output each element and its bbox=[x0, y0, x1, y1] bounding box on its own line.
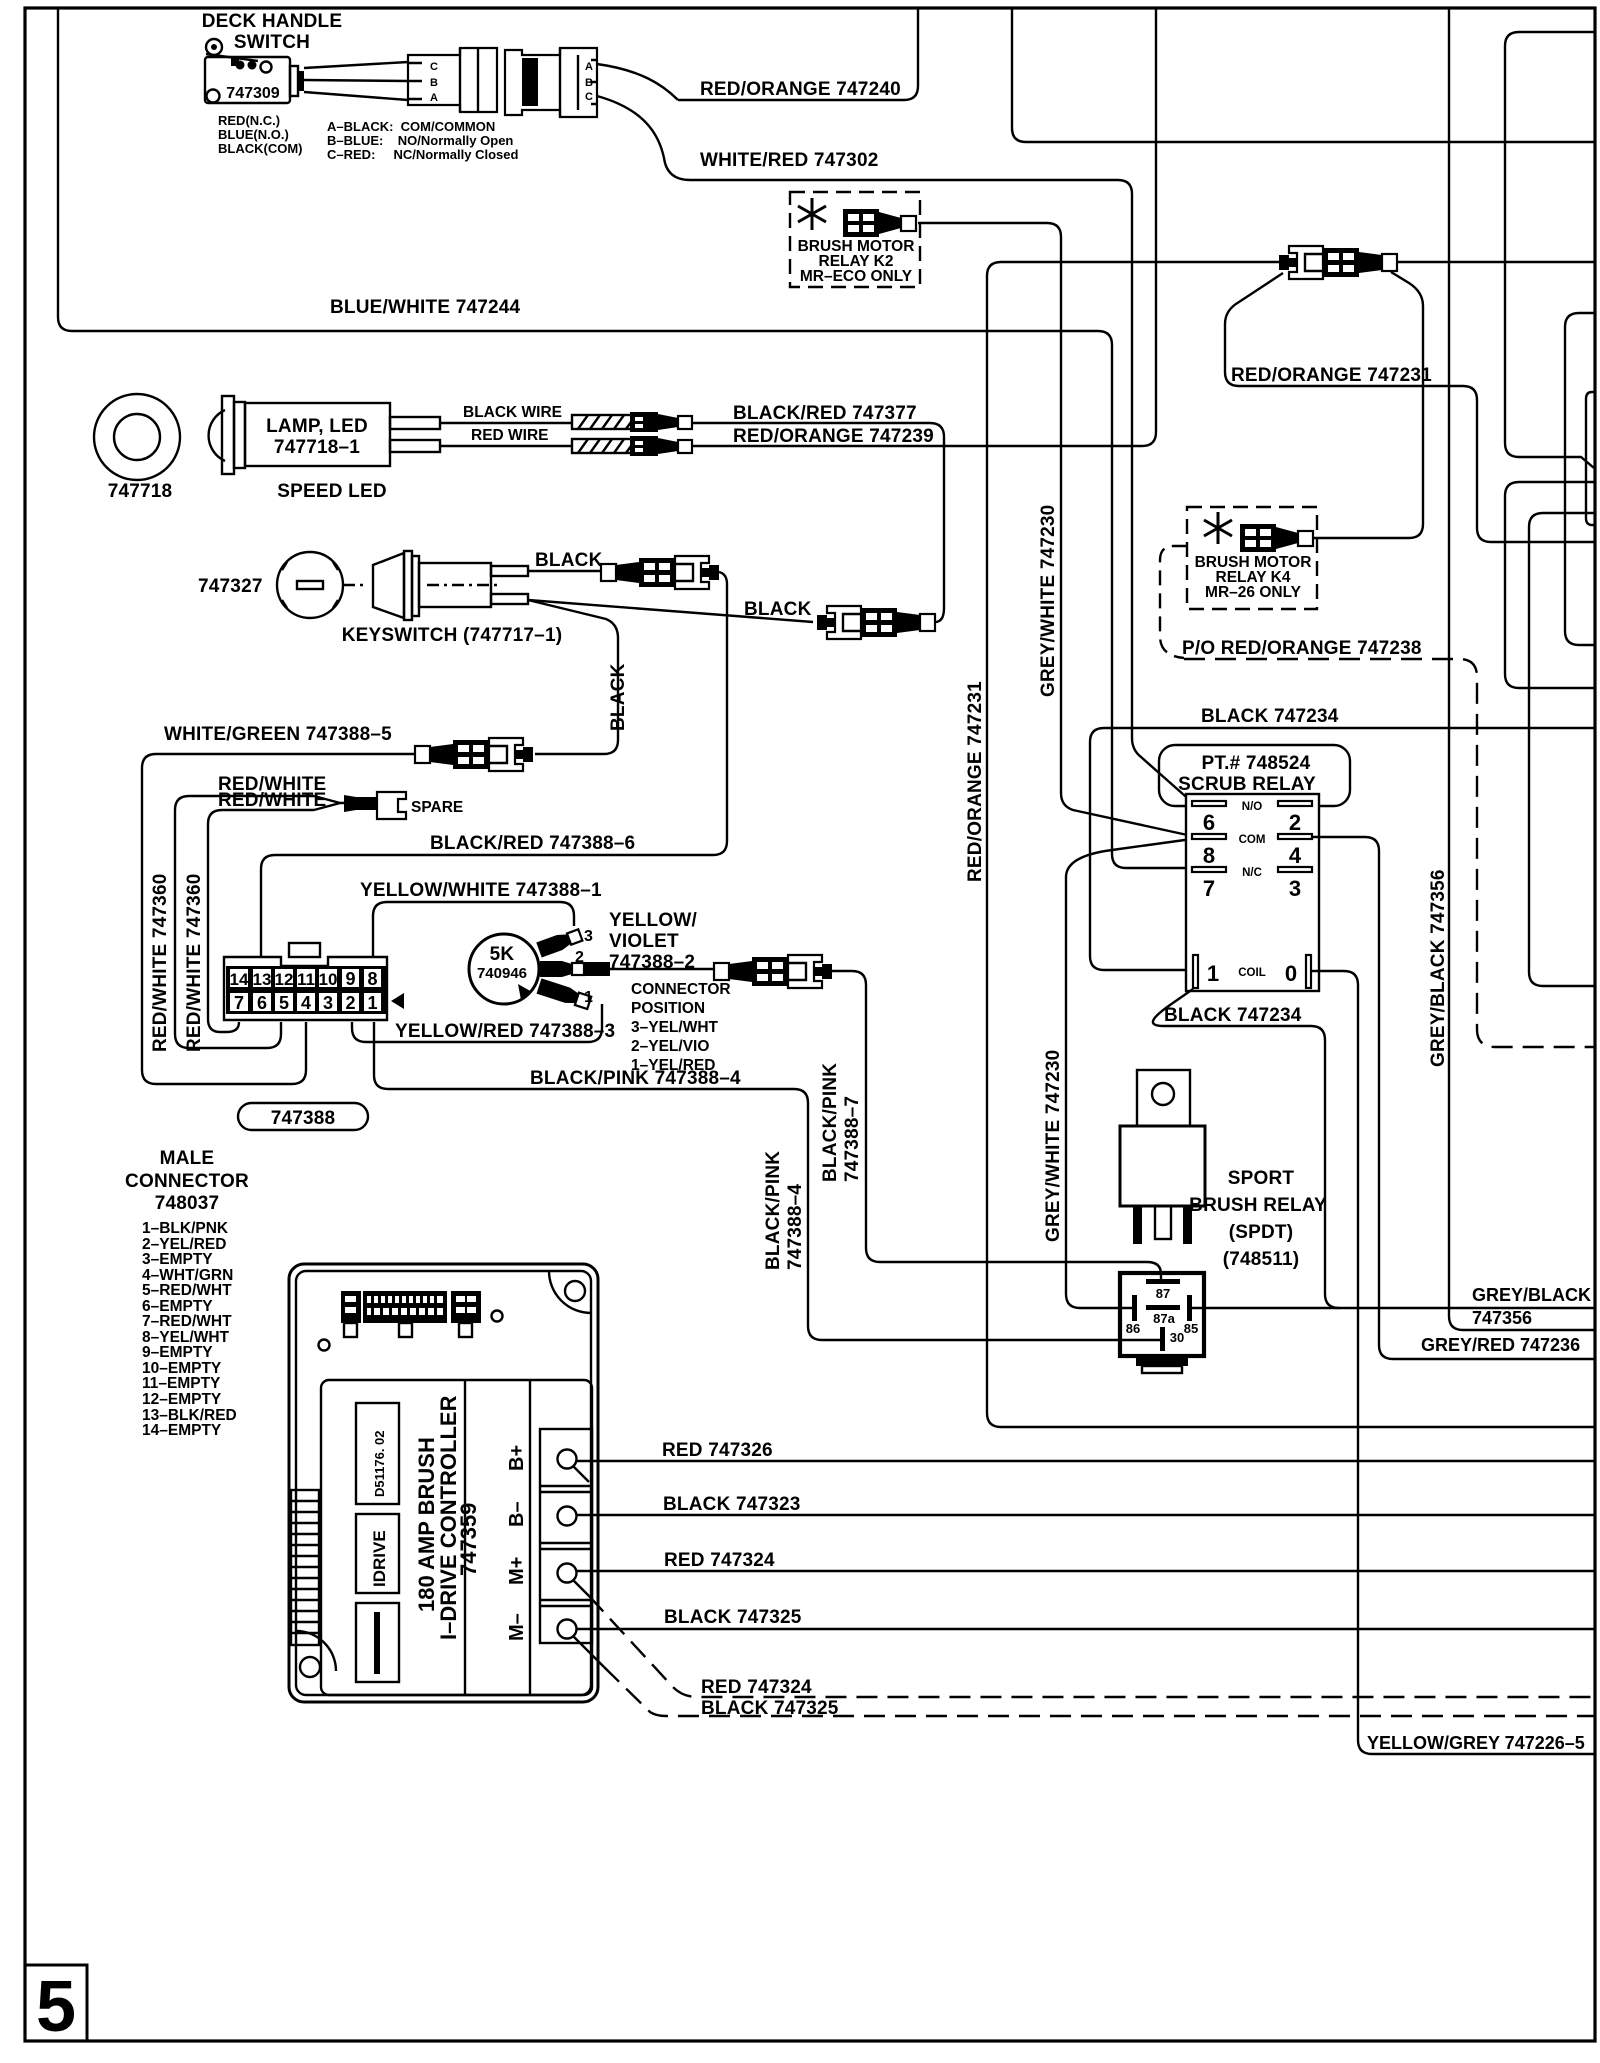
controller terminal strip bbox=[540, 1429, 592, 1643]
svg-text:VIOLET: VIOLET bbox=[609, 931, 679, 952]
svg-text:SPEED LED: SPEED LED bbox=[277, 481, 387, 502]
svg-text:7–RED/WHT: 7–RED/WHT bbox=[142, 1313, 232, 1330]
connector 747388 (14 pin) bbox=[224, 943, 387, 1020]
svg-text:BLACK/PINK: BLACK/PINK bbox=[763, 1151, 784, 1270]
svg-text:747309: 747309 bbox=[226, 85, 279, 102]
pot terminal 1 bbox=[537, 978, 592, 1010]
svg-text:740946: 740946 bbox=[477, 965, 527, 982]
svg-text:2: 2 bbox=[345, 993, 355, 1013]
svg-text:6: 6 bbox=[1203, 810, 1215, 835]
svg-text:4: 4 bbox=[301, 993, 311, 1013]
connector pair lower black bbox=[817, 606, 935, 639]
wires switch to connector bbox=[304, 62, 408, 68]
svg-text:9: 9 bbox=[345, 969, 355, 989]
keyswitch body 747717-1 bbox=[343, 551, 528, 620]
splice on black wire bbox=[572, 412, 692, 432]
svg-text:YELLOW/WHITE 747388–1: YELLOW/WHITE 747388–1 bbox=[360, 880, 602, 901]
svg-text:C: C bbox=[430, 61, 438, 73]
svg-text:6: 6 bbox=[257, 993, 267, 1013]
pot terminal 2 bbox=[540, 961, 610, 977]
svg-text:3–YEL/WHT: 3–YEL/WHT bbox=[631, 1019, 719, 1036]
svg-text:30: 30 bbox=[1170, 1330, 1184, 1345]
svg-text:A–BLACK: COM/COMMON: A–BLACK: COM/COMMON bbox=[327, 119, 495, 134]
dashed wire BLACK 747325 bbox=[604, 1667, 1594, 1716]
wire RED/WHITE to pin 5 bbox=[175, 796, 314, 1048]
splice on red wire bbox=[572, 436, 692, 456]
svg-text:1: 1 bbox=[367, 993, 377, 1013]
right border stub wire C5 bbox=[1529, 513, 1594, 986]
wire BLACK/RED 747388-6 from pin 13 bbox=[261, 855, 713, 957]
svg-text:COM: COM bbox=[1239, 834, 1266, 846]
wire BLACK 747234 lower from pin 1 bbox=[1153, 989, 1339, 1308]
svg-text:2–YEL/VIO: 2–YEL/VIO bbox=[631, 1038, 709, 1055]
wire GREY/WHITE 747230 from scrub relay pin 8 to sport relay 86 bbox=[1066, 839, 1192, 1308]
svg-text:BLACK 747234: BLACK 747234 bbox=[1201, 706, 1339, 727]
connector pair on white/green wire bbox=[415, 738, 533, 771]
wire BLACK 747323 bbox=[576, 1514, 1594, 1516]
terminal M+ bbox=[558, 1564, 577, 1583]
svg-text:3: 3 bbox=[584, 928, 593, 945]
svg-text:SWITCH: SWITCH bbox=[234, 32, 310, 53]
svg-text:RED 747326: RED 747326 bbox=[662, 1440, 773, 1461]
svg-text:RED/ORANGE 747231: RED/ORANGE 747231 bbox=[965, 681, 986, 882]
terminal B+ bbox=[558, 1450, 577, 1469]
svg-text:GREY/WHITE 747230: GREY/WHITE 747230 bbox=[1043, 1050, 1064, 1242]
wire horizontal top row 142 bbox=[1012, 8, 1594, 142]
svg-text:GREY/RED 747236: GREY/RED 747236 bbox=[1421, 1335, 1580, 1355]
svg-text:8: 8 bbox=[367, 969, 377, 989]
sport brush relay physical 748511 bbox=[1120, 1070, 1205, 1244]
wire BLACK keyswitch lower to connector bbox=[528, 600, 813, 622]
terminal B- bbox=[558, 1507, 577, 1526]
pin 86 bbox=[1132, 1295, 1137, 1321]
svg-text:13: 13 bbox=[253, 970, 272, 989]
svg-text:WHITE/RED 747302: WHITE/RED 747302 bbox=[700, 150, 879, 171]
wire BLUE/WHITE 747244 bbox=[58, 8, 1192, 868]
wire red LED lead bbox=[440, 445, 572, 447]
svg-text:MR–ECO ONLY: MR–ECO ONLY bbox=[800, 268, 913, 285]
svg-text:86: 86 bbox=[1126, 1321, 1140, 1336]
svg-text:D51176. 02: D51176. 02 bbox=[372, 1430, 387, 1497]
svg-text:747718–1: 747718–1 bbox=[274, 437, 360, 458]
brush motor relay K4 box bbox=[1187, 507, 1317, 609]
svg-text:BRUSH RELAY: BRUSH RELAY bbox=[1189, 1195, 1327, 1216]
svg-text:A: A bbox=[430, 92, 438, 104]
svg-text:3: 3 bbox=[323, 993, 333, 1013]
scrub relay pin numbers bbox=[1203, 810, 1302, 986]
svg-text:RED/ORANGE 747240: RED/ORANGE 747240 bbox=[700, 79, 901, 100]
microswitch 747309 bbox=[205, 39, 304, 103]
wire BLACK/RED 747377 bbox=[692, 423, 944, 622]
scrub relay label box PT.# 748524 bbox=[1159, 745, 1350, 806]
connector pair on keyswitch black wire bbox=[601, 556, 719, 589]
svg-text:RED/ORANGE 747231: RED/ORANGE 747231 bbox=[1231, 365, 1432, 386]
wire WHITE/GREEN 747388-5 bbox=[142, 754, 415, 1084]
potentiometer 5K 740946 bbox=[469, 934, 539, 1004]
D51176.02 label box bbox=[356, 1403, 399, 1504]
wire 747388-7 to sport relay 87 bbox=[832, 971, 1161, 1280]
svg-text:IDRIVE: IDRIVE bbox=[370, 1530, 389, 1587]
i-drive controller 747359 box bbox=[289, 1264, 598, 1702]
svg-text:RED/WHITE 747360: RED/WHITE 747360 bbox=[150, 874, 171, 1053]
dashed pigtail K4 to 747238 bbox=[1160, 546, 1187, 658]
svg-text:N/C: N/C bbox=[1242, 867, 1262, 879]
svg-text:WHITE/GREEN 747388–5: WHITE/GREEN 747388–5 bbox=[164, 724, 392, 745]
svg-text:BLACK/RED 747377: BLACK/RED 747377 bbox=[733, 403, 917, 424]
svg-text:(SPDT): (SPDT) bbox=[1229, 1222, 1294, 1243]
svg-text:747356: 747356 bbox=[1472, 1308, 1532, 1328]
svg-text:85: 85 bbox=[1184, 1321, 1198, 1336]
svg-text:(748511): (748511) bbox=[1223, 1249, 1300, 1270]
oval label 747388 bbox=[238, 1103, 368, 1130]
scrub relay pin bars bbox=[1192, 801, 1312, 988]
svg-text:YELLOW/GREY 747226–5: YELLOW/GREY 747226–5 bbox=[1367, 1733, 1585, 1753]
right border stub wire C1 bbox=[1505, 32, 1594, 468]
svg-text:GREY/WHITE 747230: GREY/WHITE 747230 bbox=[1038, 505, 1059, 697]
svg-text:747359: 747359 bbox=[456, 1503, 481, 1576]
wire RED 747326 bbox=[576, 1460, 1594, 1462]
wire YELLOW/WHITE 747388-1 from pin 8 bbox=[373, 902, 574, 957]
right border stub wire C4 bbox=[1505, 482, 1594, 688]
svg-text:14–EMPTY: 14–EMPTY bbox=[142, 1422, 222, 1439]
svg-text:87: 87 bbox=[1156, 1286, 1170, 1301]
svg-text:747327: 747327 bbox=[198, 576, 263, 597]
svg-text:BLACK: BLACK bbox=[744, 599, 812, 620]
svg-text:9–EMPTY: 9–EMPTY bbox=[142, 1344, 213, 1361]
pot terminal 3 bbox=[536, 927, 583, 957]
svg-text:B+: B+ bbox=[506, 1445, 528, 1471]
svg-text:1–BLK/PNK: 1–BLK/PNK bbox=[142, 1220, 229, 1237]
wire sport relay 85 to border bbox=[1192, 1307, 1594, 1309]
svg-text:2: 2 bbox=[575, 949, 584, 966]
svg-text:5: 5 bbox=[36, 1967, 76, 2047]
svg-text:BLACK 747325: BLACK 747325 bbox=[664, 1607, 802, 1628]
svg-text:P/O RED/ORANGE 747238: P/O RED/ORANGE 747238 bbox=[1182, 638, 1422, 659]
svg-text:87a: 87a bbox=[1153, 1311, 1175, 1326]
panel hole 747718 bbox=[94, 394, 180, 480]
svg-text:LAMP, LED: LAMP, LED bbox=[266, 416, 368, 437]
svg-text:RED 747324: RED 747324 bbox=[701, 1677, 812, 1698]
svg-text:SPORT: SPORT bbox=[1228, 1168, 1295, 1189]
wire RED/ORANGE 747231 main bbox=[987, 262, 1594, 1427]
svg-text:10: 10 bbox=[319, 970, 338, 989]
svg-text:1: 1 bbox=[1207, 961, 1219, 986]
svg-text:BLUE/WHITE 747244: BLUE/WHITE 747244 bbox=[330, 297, 521, 318]
svg-text:11–EMPTY: 11–EMPTY bbox=[142, 1375, 221, 1392]
connector pair on yellow/violet wire bbox=[714, 955, 832, 988]
svg-text:RED 747324: RED 747324 bbox=[664, 1550, 775, 1571]
svg-text:MALE: MALE bbox=[160, 1148, 215, 1169]
svg-text:M–: M– bbox=[506, 1613, 528, 1641]
sheet number box bbox=[25, 1965, 87, 2041]
pin 87 bbox=[1146, 1279, 1180, 1284]
svg-text:747388–2: 747388–2 bbox=[609, 952, 695, 973]
connector arrow marker bbox=[391, 993, 404, 1009]
svg-text:DECK HANDLE: DECK HANDLE bbox=[202, 11, 342, 32]
IDRIVE label box bbox=[356, 1514, 399, 1593]
svg-text:C: C bbox=[585, 91, 593, 103]
wire YELLOW/GREY 747226-5 from pin 0 bbox=[1311, 971, 1594, 1754]
terminal M- bbox=[558, 1620, 577, 1639]
wire GREY/WHITE 747230 from K2 to scrub relay pin 8 bbox=[918, 223, 1192, 836]
svg-text:N/O: N/O bbox=[1242, 801, 1263, 813]
sport brush relay schematic symbol bbox=[1120, 1273, 1204, 1356]
svg-text:11: 11 bbox=[297, 970, 315, 989]
svg-text:CONNECTOR: CONNECTOR bbox=[125, 1171, 249, 1192]
sport relay bottom tab bbox=[1136, 1358, 1188, 1366]
svg-text:KEYSWITCH (747717–1): KEYSWITCH (747717–1) bbox=[342, 625, 562, 646]
svg-text:747388–7: 747388–7 bbox=[842, 1096, 863, 1182]
svg-text:BLACK 747234: BLACK 747234 bbox=[1164, 1005, 1302, 1026]
svg-text:8: 8 bbox=[1203, 843, 1215, 868]
svg-text:747388: 747388 bbox=[271, 1108, 336, 1129]
svg-text:BLACK/PINK: BLACK/PINK bbox=[820, 1063, 841, 1182]
svg-text:747388–4: 747388–4 bbox=[785, 1184, 806, 1270]
wire WHITE/RED 747302 bbox=[597, 96, 690, 180]
svg-text:B: B bbox=[430, 77, 438, 89]
svg-text:747718: 747718 bbox=[108, 481, 173, 502]
wire 747231 connector to K4 relay bbox=[1292, 272, 1423, 538]
wire RED/ORANGE 747240 bbox=[597, 64, 678, 100]
svg-text:BLACK: BLACK bbox=[608, 663, 629, 731]
wire RED/ORANGE 747239 bbox=[692, 8, 1156, 446]
controller heatsink fins bbox=[291, 1490, 319, 1645]
svg-text:GREY/BLACK: GREY/BLACK bbox=[1472, 1285, 1591, 1305]
svg-text:BLACK(COM): BLACK(COM) bbox=[218, 141, 302, 156]
wire black LED lead bbox=[440, 422, 572, 424]
svg-text:SCRUB RELAY: SCRUB RELAY bbox=[1178, 774, 1316, 795]
svg-text:BLACK/PINK 747388–4: BLACK/PINK 747388–4 bbox=[530, 1068, 741, 1089]
svg-text:SPARE: SPARE bbox=[411, 799, 463, 816]
asterisk K2 bbox=[798, 198, 826, 230]
wire BLACK 747325 bbox=[576, 1628, 1594, 1630]
svg-text:7: 7 bbox=[234, 993, 244, 1013]
wire RED/ORANGE 747231 branch to border bbox=[1225, 273, 1594, 542]
pin 30 bbox=[1160, 1327, 1165, 1351]
svg-text:0: 0 bbox=[1285, 961, 1297, 986]
svg-text:CONNECTOR: CONNECTOR bbox=[631, 981, 731, 998]
asterisk K4 bbox=[1204, 512, 1232, 544]
wire YELLOW/VIOLET 747388-2 bbox=[610, 968, 714, 970]
wire P/O RED/ORANGE 747238 dashed bbox=[1184, 659, 1594, 1047]
svg-text:PT.# 748524: PT.# 748524 bbox=[1202, 753, 1311, 774]
deck handle connector pair J1 bbox=[408, 48, 597, 117]
K2 relay terminal faston bbox=[843, 209, 916, 237]
svg-text:BLACK 747323: BLACK 747323 bbox=[663, 1494, 801, 1515]
connector pair on red/orange 747231 bbox=[1279, 246, 1397, 279]
svg-text:BLACK 747325: BLACK 747325 bbox=[701, 1698, 839, 1719]
svg-text:COIL: COIL bbox=[1238, 967, 1265, 979]
svg-text:7: 7 bbox=[1203, 876, 1215, 901]
svg-text:M+: M+ bbox=[506, 1557, 528, 1585]
pin 85 bbox=[1187, 1295, 1192, 1321]
wire RED/WHITE to pin 7 bbox=[208, 810, 314, 1032]
controller header connectors bbox=[341, 1291, 481, 1337]
svg-text:B–BLUE: NO/Normally Open: B–BLUE: NO/Normally Open bbox=[327, 133, 513, 148]
svg-text:5: 5 bbox=[279, 993, 289, 1013]
svg-text:POSITION: POSITION bbox=[631, 1000, 705, 1017]
svg-text:C–RED: NC/Normally Closed: C–RED: NC/Normally Closed bbox=[327, 147, 518, 162]
svg-text:BLUE(N.O.): BLUE(N.O.) bbox=[218, 127, 289, 142]
svg-text:BLACK/RED 747388–6: BLACK/RED 747388–6 bbox=[430, 833, 635, 854]
svg-text:748037: 748037 bbox=[155, 1193, 220, 1214]
scrub relay body 748524 bbox=[1186, 794, 1319, 991]
lamp LED 747718-1 bbox=[209, 396, 440, 474]
svg-text:RED/ORANGE 747239: RED/ORANGE 747239 bbox=[733, 426, 934, 447]
svg-text:A: A bbox=[585, 61, 593, 73]
svg-text:3: 3 bbox=[1289, 876, 1301, 901]
K4 relay terminal faston bbox=[1240, 524, 1313, 552]
right border stub wire C2 bbox=[1565, 313, 1594, 645]
svg-text:YELLOW/RED 747388–3: YELLOW/RED 747388–3 bbox=[395, 1021, 615, 1042]
svg-text:RED WIRE: RED WIRE bbox=[471, 427, 549, 444]
right border stub wire C3 bbox=[1586, 392, 1595, 525]
svg-text:RED/WHITE 747360: RED/WHITE 747360 bbox=[184, 874, 205, 1053]
wire BLACK keyswitch upper bbox=[528, 570, 601, 572]
pin 87a bbox=[1146, 1305, 1180, 1310]
wire GREY/BLACK 747356 bbox=[1449, 8, 1594, 1330]
svg-text:BLACK WIRE: BLACK WIRE bbox=[463, 404, 562, 421]
wire YELLOW/RED 747388-3 from pin 2 bbox=[352, 1004, 602, 1042]
svg-text:MR–26 ONLY: MR–26 ONLY bbox=[1205, 584, 1302, 601]
wire from connector down to BLACK/RED 747388-6 bbox=[713, 572, 727, 855]
wire BLACK/PINK 747388-4 from pin 1 bbox=[374, 1022, 1160, 1340]
brush motor relay K2 box bbox=[790, 192, 920, 287]
wire GREY/RED 747236 from pin 4 bbox=[1312, 837, 1594, 1359]
controller inner panel bbox=[321, 1380, 592, 1695]
svg-text:YELLOW/: YELLOW/ bbox=[609, 910, 697, 931]
wire keyswitch lower lead down bbox=[528, 600, 618, 754]
spare connector junction bbox=[314, 796, 344, 810]
svg-text:B–: B– bbox=[506, 1501, 528, 1527]
svg-text:1: 1 bbox=[584, 989, 593, 1006]
svg-text:4: 4 bbox=[1289, 843, 1302, 868]
wire BLACK 747234 upper to scrub relay pin 1 bbox=[1090, 728, 1594, 970]
PG drives label box bbox=[356, 1603, 399, 1682]
svg-text:5–RED/WHT: 5–RED/WHT bbox=[142, 1282, 232, 1299]
svg-text:RED/WHITE: RED/WHITE bbox=[218, 790, 326, 811]
svg-text:14: 14 bbox=[230, 970, 249, 989]
svg-text:2: 2 bbox=[1289, 810, 1301, 835]
svg-text:RED(N.C.): RED(N.C.) bbox=[218, 113, 280, 128]
svg-text:12–EMPTY: 12–EMPTY bbox=[142, 1391, 222, 1408]
svg-text:B: B bbox=[585, 77, 593, 89]
svg-text:12: 12 bbox=[275, 970, 294, 989]
svg-text:GREY/BLACK 747356: GREY/BLACK 747356 bbox=[1428, 869, 1449, 1067]
wire RED 747324 bbox=[576, 1570, 1594, 1572]
svg-text:BLACK: BLACK bbox=[535, 550, 603, 571]
svg-text:5K: 5K bbox=[490, 944, 515, 965]
dashed wire RED 747324 bbox=[589, 1596, 1594, 1697]
svg-text:3–EMPTY: 3–EMPTY bbox=[142, 1251, 213, 1268]
